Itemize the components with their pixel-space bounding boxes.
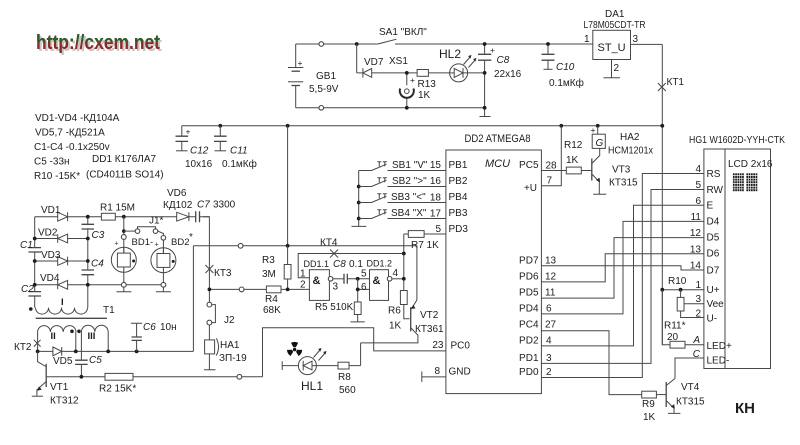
svg-text:&: & [373, 275, 381, 287]
svg-text:VT1: VT1 [50, 382, 69, 393]
svg-text:I: I [61, 297, 64, 308]
svg-text:3300: 3300 [213, 200, 236, 211]
svg-text:R6: R6 [388, 306, 401, 317]
svg-text:18: 18 [430, 193, 442, 204]
svg-text:C8: C8 [333, 259, 346, 270]
svg-text:0.1мКф: 0.1мКф [222, 158, 257, 170]
svg-text:G: G [596, 138, 604, 149]
svg-text:5: 5 [435, 224, 441, 235]
wire battery bottom rail [296, 107, 485, 109]
svg-text:SB4 "X": SB4 "X" [391, 208, 427, 219]
logo http://cxem.net [36, 32, 162, 56]
svg-text:PD6: PD6 [519, 272, 539, 283]
svg-text:PB3: PB3 [449, 208, 468, 219]
wire PD7 to D7 [541, 266, 704, 270]
svg-text:2: 2 [614, 63, 620, 74]
svg-text:4: 4 [546, 336, 552, 347]
transformer T1 winding I [29, 297, 115, 316]
svg-text:SA1 "ВКЛ": SA1 "ВКЛ" [379, 27, 427, 38]
resistor R9 [642, 391, 657, 398]
wire V1 vertical R7-R6 [403, 234, 405, 291]
svg-text:VD6: VD6 [167, 188, 187, 199]
wire KT4 line L2 [298, 254, 404, 278]
svg-text:C7: C7 [197, 200, 210, 211]
svg-text:L78M05CDT-TR: L78M05CDT-TR [584, 20, 646, 31]
test point KT3 [205, 265, 213, 273]
svg-text:PD3: PD3 [449, 224, 469, 235]
MCU right pin numbers [545, 161, 557, 379]
svg-text:DD1.1: DD1.1 [304, 259, 330, 269]
svg-text:C8: C8 [497, 55, 510, 66]
svg-text:13: 13 [545, 256, 557, 267]
resistor R1 [101, 213, 115, 220]
jumper J1 [124, 216, 164, 236]
capacitor C11 [214, 126, 257, 170]
svg-text:&: & [313, 275, 321, 287]
svg-text:ЗП-19: ЗП-19 [219, 353, 247, 364]
svg-text:HL1: HL1 [301, 379, 323, 393]
svg-text:+: + [115, 241, 119, 248]
resistor R8 [338, 362, 349, 369]
svg-text:КТ315: КТ315 [676, 397, 705, 408]
svg-text:6: 6 [361, 282, 367, 293]
resistor R5 [354, 302, 361, 315]
transformer winding II [38, 326, 76, 352]
capacitor C8 (0.1) [344, 274, 347, 284]
svg-text:3M: 3M [262, 269, 276, 280]
svg-text:C10: C10 [556, 62, 575, 73]
svg-text:23: 23 [432, 340, 444, 351]
junction dots multiplier [33, 237, 37, 241]
diode VD3 [58, 257, 68, 266]
wire left rail of multiplier [34, 217, 36, 308]
resistor R4 [266, 286, 281, 293]
LCD pixel blocks [733, 173, 757, 191]
wire +U pin7 riser [541, 126, 561, 186]
transistor VT1 [32, 351, 79, 406]
connector circle bottom [319, 106, 324, 111]
svg-text:PD7: PD7 [519, 256, 539, 267]
wire HV row 2 [35, 238, 88, 240]
wire common rail corner up [192, 246, 194, 352]
diode VD1 [58, 212, 68, 221]
svg-text:КТ361: КТ361 [415, 324, 444, 335]
node battery top junction [355, 42, 359, 46]
button SB3 [359, 192, 446, 203]
diode VD6 [177, 212, 189, 221]
svg-text:R5 510K: R5 510K [315, 302, 354, 313]
svg-text:1: 1 [584, 34, 590, 45]
svg-text:+: + [298, 58, 303, 68]
diode VD5 [53, 347, 62, 356]
svg-text:15: 15 [430, 160, 442, 171]
svg-text:D4: D4 [707, 217, 720, 228]
buzzer HA1 [204, 325, 247, 370]
svg-text:VD5: VD5 [53, 356, 73, 367]
svg-text:VD4: VD4 [40, 273, 60, 284]
svg-text:КН: КН [735, 400, 755, 417]
svg-text:BD1-: BD1- [132, 237, 154, 248]
svg-text:6: 6 [546, 304, 552, 315]
svg-text:1K: 1K [643, 412, 656, 423]
connector circle top [319, 42, 324, 47]
svg-text:LED-: LED- [707, 356, 730, 367]
svg-text:GND: GND [449, 367, 471, 378]
svg-text:DD1.2: DD1.2 [367, 259, 393, 269]
connector XS1 [389, 56, 415, 108]
svg-text:R9: R9 [642, 399, 655, 410]
svg-text:HA1: HA1 [220, 340, 240, 351]
wire top rail battery to DA1 [296, 43, 593, 45]
svg-text:VT2: VT2 [420, 310, 439, 321]
parts list text [34, 113, 164, 182]
wire PD0 to RS [541, 174, 704, 378]
svg-text:E: E [707, 201, 714, 212]
svg-text:RS: RS [707, 169, 721, 180]
+5V bus horizontal [182, 125, 663, 127]
svg-text:Vee: Vee [707, 299, 725, 310]
svg-text:C4: C4 [91, 259, 104, 270]
svg-text:1K: 1K [566, 155, 579, 166]
svg-text:11: 11 [545, 288, 556, 299]
capacitor C6 [131, 322, 177, 351]
svg-text:12: 12 [545, 272, 557, 283]
LCD block HG1 [689, 135, 785, 369]
svg-text:R4: R4 [265, 294, 278, 305]
svg-text:КТ315: КТ315 [609, 178, 638, 189]
wire PC4 to R9 [541, 331, 641, 395]
svg-text:5: 5 [361, 269, 367, 280]
button SB1 [359, 160, 446, 171]
svg-text:5,5-9V: 5,5-9V [309, 84, 339, 95]
svg-text:КТ312: КТ312 [50, 396, 79, 407]
svg-text:22x16: 22x16 [494, 69, 522, 80]
MCU right pin names [519, 160, 539, 378]
svg-text:КТ3: КТ3 [214, 268, 232, 279]
svg-text:68K: 68K [263, 305, 281, 316]
wire KT3 vertical [203, 217, 209, 303]
resistor R7 [404, 233, 446, 235]
capacitor C5 [75, 360, 88, 364]
diode VD7 [363, 57, 384, 78]
svg-text:R11*: R11* [664, 321, 686, 332]
capacitor C12 [176, 126, 213, 170]
svg-text:PC5: PC5 [519, 160, 539, 171]
svg-text:MCU: MCU [485, 158, 510, 170]
svg-text:VD7: VD7 [364, 57, 384, 68]
svg-text:PB1: PB1 [449, 160, 468, 171]
wire PC0 routing [263, 328, 446, 377]
svg-text:DA1: DA1 [605, 9, 625, 20]
svg-text:R2 15K*: R2 15K* [99, 384, 136, 395]
svg-text:+: + [410, 75, 415, 85]
svg-text:7: 7 [547, 176, 553, 187]
svg-text:R3: R3 [262, 255, 275, 266]
svg-text:III: III [88, 331, 96, 342]
svg-text:1K: 1K [389, 321, 402, 332]
MCU left pin names [449, 160, 471, 378]
svg-text:ST_U: ST_U [598, 42, 626, 54]
MCU left pin numbers [430, 160, 444, 377]
svg-text:C1-C4 -0.1x250v: C1-C4 -0.1x250v [34, 142, 110, 153]
button SB2 [359, 176, 446, 187]
capacitor C3 [82, 224, 95, 229]
svg-text:HG1 W1602D-YYH-CTK: HG1 W1602D-YYH-CTK [689, 135, 785, 146]
wire bus drop to pulse line [287, 126, 289, 246]
svg-text:+U: +U [524, 183, 537, 194]
svg-text:2: 2 [300, 280, 306, 291]
svg-text:PD2: PD2 [519, 336, 539, 347]
LCD pin numbers [690, 164, 702, 360]
svg-text:VD3: VD3 [41, 250, 61, 261]
svg-text:R10: R10 [668, 276, 687, 287]
svg-text:PC0: PC0 [451, 341, 471, 352]
wire +5 riser to LED+ and resistor 20 [662, 290, 670, 345]
svg-text:R12: R12 [564, 140, 583, 151]
svg-text:LED+: LED+ [707, 341, 732, 352]
svg-text:0.1мКф: 0.1мКф [549, 77, 584, 89]
svg-text:КД102: КД102 [163, 200, 193, 211]
svg-text:3: 3 [546, 353, 552, 364]
Geiger tube BD1 [111, 235, 153, 292]
svg-text:2: 2 [546, 367, 552, 378]
wire pin6 stub [358, 279, 370, 302]
svg-text:PD4: PD4 [519, 304, 539, 315]
svg-text:XS1: XS1 [389, 56, 408, 67]
svg-text:R7 1K: R7 1K [411, 240, 439, 251]
svg-text:*: * [189, 232, 193, 243]
svg-text:КТ2: КТ2 [14, 342, 32, 353]
svg-text:PB2: PB2 [449, 176, 468, 187]
svg-text:BD2: BD2 [171, 237, 189, 248]
svg-text:+: + [186, 127, 191, 137]
svg-text:DD2 ATMEGA8: DD2 ATMEGA8 [465, 133, 531, 145]
wire R4 row [209, 288, 309, 290]
node R1 out [122, 215, 126, 219]
button SB4 [359, 208, 446, 219]
svg-text:10x16: 10x16 [185, 159, 213, 170]
wire common rail y351 [38, 350, 194, 352]
resistor R11 [680, 290, 682, 298]
svg-text:RW: RW [707, 185, 724, 196]
svg-text:PD1: PD1 [519, 353, 539, 364]
wire PD6 to D6 [541, 254, 704, 282]
svg-text:C6: C6 [143, 322, 156, 333]
svg-text:4: 4 [393, 268, 399, 279]
svg-text:SB3 "<": SB3 "<" [391, 192, 426, 203]
svg-text:560: 560 [339, 385, 356, 396]
svg-text:3: 3 [633, 34, 639, 45]
svg-text:C5: C5 [89, 355, 102, 366]
svg-text:16: 16 [430, 176, 442, 187]
svg-text:1K: 1K [418, 90, 431, 101]
svg-text:U-: U- [707, 314, 718, 325]
svg-text:C1: C1 [20, 240, 33, 251]
wire BD1 anode drop [123, 217, 125, 235]
LCD pin names [707, 169, 732, 367]
resistor R2 [52, 376, 105, 378]
test point KT1 [658, 83, 666, 91]
svg-text:VD1-VD4 -КД104А: VD1-VD4 -КД104А [35, 113, 120, 124]
regulator DA1 [584, 9, 663, 60]
test point KT2 [34, 340, 41, 347]
svg-text:GB1: GB1 [316, 71, 336, 82]
resistor R13 [417, 70, 428, 77]
resistor R6 [400, 291, 407, 305]
svg-text:(CD4011B SO14): (CD4011B SO14) [86, 170, 164, 181]
jumper J2 [207, 302, 235, 326]
GND pin stub [422, 372, 446, 383]
capacitor C2 [28, 292, 41, 296]
wire PD1 to RW [541, 190, 704, 364]
wire C8 to DD1.2 pin5 [347, 278, 369, 280]
transformer winding III [77, 325, 108, 360]
MCU DD2 ATMEGA8 [446, 133, 542, 394]
svg-text:28: 28 [546, 161, 558, 172]
svg-text:PD5: PD5 [519, 288, 539, 299]
svg-text:C3: C3 [92, 230, 105, 241]
transistor VT2 [361, 246, 444, 343]
wire PD4 to D4 [541, 221, 704, 314]
svg-text:DD1 К176ЛА7: DD1 К176ЛА7 [92, 154, 157, 165]
wire VD7 branch [357, 44, 485, 73]
svg-text:КТ4: КТ4 [320, 238, 338, 249]
svg-text:D7: D7 [707, 266, 720, 277]
buttons rail [352, 171, 367, 227]
wire HV row 1 [35, 216, 210, 218]
test point KT4 [330, 250, 338, 258]
svg-text:C5 -33н: C5 -33н [34, 157, 70, 168]
transistor VT4 [666, 379, 705, 414]
svg-text:10н: 10н [160, 322, 177, 333]
svg-text:VT4: VT4 [681, 382, 700, 393]
svg-text:R10 -15K*: R10 -15K* [34, 171, 80, 182]
wire mid rail of multiplier [87, 217, 89, 308]
wire PD5 to D5 [541, 238, 704, 299]
svg-text:C11: C11 [230, 146, 248, 157]
svg-text:20: 20 [667, 332, 679, 343]
wire LED- to VT4 [675, 358, 704, 379]
connector circle on R2 line [237, 374, 242, 379]
svg-text:LCD 2x16: LCD 2x16 [728, 159, 773, 170]
wire pulse line L1 [193, 245, 417, 247]
buzzer HA2 [591, 125, 654, 157]
switch SA1 arm [378, 39, 397, 44]
svg-text:HL2: HL2 [439, 47, 461, 61]
svg-text:8: 8 [434, 366, 440, 377]
svg-text:D6: D6 [707, 249, 720, 260]
svg-text:II: II [51, 331, 56, 342]
svg-text:PD0: PD0 [519, 367, 539, 378]
svg-text:R1 15M: R1 15M [100, 203, 135, 214]
diode VD2 [58, 234, 68, 243]
svg-text:VD5,7 -КД521А: VD5,7 -КД521А [35, 128, 105, 139]
LED HL1 with R8 [282, 348, 338, 393]
svg-text:КТ1: КТ1 [667, 77, 685, 88]
svg-text:J1*: J1* [149, 216, 164, 227]
svg-text:VD2: VD2 [38, 228, 58, 239]
resistor R3 [287, 246, 289, 290]
svg-text:HA2: HA2 [620, 132, 640, 143]
transistor VT3 [592, 148, 638, 194]
svg-text:D5: D5 [707, 233, 720, 244]
Geiger tube BD2 [151, 232, 193, 292]
svg-text:SB2 ">": SB2 ">" [392, 176, 427, 187]
svg-text:27: 27 [545, 320, 557, 331]
capacitor C8 [478, 44, 522, 117]
capacitor C4 [82, 270, 95, 275]
wire HV row 4 tubes rail [35, 284, 161, 286]
svg-text:PB4: PB4 [449, 192, 468, 203]
ground DA1 pin2 [604, 60, 621, 78]
capacitor C10 [542, 44, 584, 89]
svg-text:+: + [490, 45, 495, 55]
svg-text:HCM1201x: HCM1201x [608, 146, 653, 157]
gate DD1.1 [300, 259, 344, 300]
wire +5V vertical from DA1 [661, 44, 663, 344]
svg-text:U+: U+ [707, 285, 720, 296]
wire PD2 to E [541, 205, 704, 346]
capacitor C7 [196, 211, 200, 222]
wire HV row 3 [35, 260, 88, 262]
svg-text:SB1 "V": SB1 "V" [392, 160, 428, 171]
transformer core [36, 317, 107, 319]
wire U+ row [662, 289, 704, 291]
svg-text:3: 3 [333, 282, 339, 293]
svg-text:T1: T1 [103, 305, 115, 316]
svg-text:PC4: PC4 [519, 320, 539, 331]
svg-text:VT3: VT3 [612, 165, 631, 176]
radiation trefoil [287, 342, 302, 356]
capacitor C1 [28, 248, 41, 252]
svg-text:17: 17 [430, 209, 442, 220]
svg-text:J2: J2 [224, 315, 235, 326]
svg-text:1: 1 [300, 269, 306, 280]
svg-text:C12: C12 [190, 146, 209, 157]
LED HL2 [439, 47, 477, 82]
svg-text:C2: C2 [21, 284, 34, 295]
svg-text:R8: R8 [338, 372, 351, 383]
resistor R12 [541, 170, 591, 172]
svg-text:+: + [591, 125, 596, 135]
svg-text:R13: R13 [418, 79, 437, 90]
svg-text:+: + [155, 242, 159, 249]
battery GB1 [288, 44, 339, 108]
diode VD4 [58, 280, 68, 289]
gate DD1.2 [361, 259, 404, 301]
svg-text:VD1: VD1 [41, 205, 61, 216]
